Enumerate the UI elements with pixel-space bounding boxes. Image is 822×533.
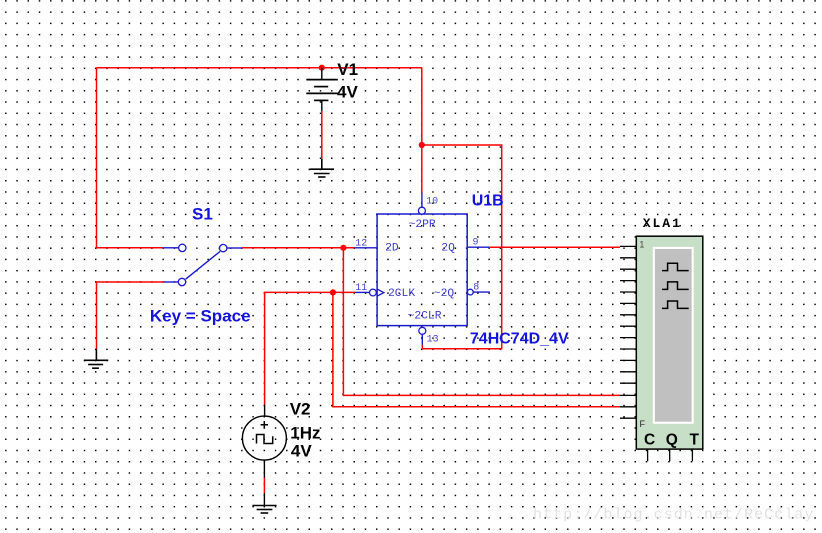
V2 plus sign: [261, 421, 268, 428]
V2 top stem: [264, 405, 266, 417]
svg-text:V2: V2: [290, 400, 311, 419]
XLA1 pulse glyph 3: [662, 301, 689, 308]
pin 10 bubble: [418, 207, 425, 214]
svg-text:XLA1: XLA1: [643, 216, 682, 231]
svg-text:http://blog.csdn.net/ReCclay: http://blog.csdn.net/ReCclay: [533, 507, 814, 524]
ground (below S1): [84, 349, 108, 368]
pin 13 bubble (~2CLR): [419, 327, 426, 334]
wire: top horizontal V1+ rail: [97, 67, 422, 69]
svg-text:4V: 4V: [337, 83, 358, 102]
svg-text:4V: 4V: [291, 442, 312, 461]
wire: S1 top contact to V1 rail: [97, 247, 163, 249]
svg-text:2CLK: 2CLK: [388, 288, 415, 300]
S1 contact bottom-left: [178, 278, 185, 285]
wire: V1+ rail left vertical to S1 top contact: [96, 68, 98, 248]
svg-text:12: 12: [355, 239, 367, 250]
wire: 2D branch down to logic analyzer pin 14: [343, 248, 620, 396]
op-amp U1B flip-flop body: [377, 214, 467, 326]
logic analyzer XLA1 body: [636, 236, 703, 449]
svg-text:1: 1: [639, 239, 644, 249]
svg-text:S1: S1: [192, 204, 213, 223]
S1 contact top-left: [179, 244, 186, 251]
svg-text:10: 10: [426, 197, 438, 208]
wire: V2 to U1B pin 11 (2CLK): [265, 292, 355, 404]
battery V1: [306, 68, 338, 111]
V2 square wave glyph: [257, 435, 273, 444]
svg-text:F: F: [640, 419, 646, 429]
svg-text:~2Q: ~2Q: [434, 288, 455, 300]
S1 contact common: [220, 244, 227, 251]
clock source V2: [242, 416, 286, 460]
svg-text:74HC74D_4V: 74HC74D_4V: [470, 330, 569, 347]
switch S1: [163, 248, 242, 282]
pin 11 bubble: [370, 289, 377, 296]
XLA1 pulse glyph 1: [662, 263, 689, 270]
wire: vertical drop to U1B pin 10: [421, 68, 423, 193]
svg-text:~2PR: ~2PR: [409, 219, 436, 231]
ground (below V2): [252, 506, 276, 514]
pin 13 stem: [421, 334, 423, 344]
svg-text:T: T: [690, 431, 700, 448]
svg-text:8: 8: [473, 282, 479, 293]
wire: branch to U1B pin 13 (preset/clear rail): [422, 145, 502, 349]
svg-text:~2CLR: ~2CLR: [408, 310, 442, 322]
wire: 2CLK branch down to logic analyzer pin 15: [333, 292, 620, 406]
pin 8 bubble (~2Q): [467, 289, 473, 295]
wire: S1 bottom contact to ground: [97, 282, 164, 349]
pin 10 stem: [421, 193, 423, 208]
svg-text:2D: 2D: [385, 242, 399, 254]
svg-text:V1: V1: [337, 60, 358, 79]
svg-text:13: 13: [427, 334, 439, 345]
clock wedge: [377, 289, 384, 296]
pin 9 stem (2Q): [467, 246, 489, 248]
svg-text:2Q: 2Q: [441, 243, 455, 255]
svg-text:Q: Q: [666, 431, 678, 448]
wire: V2 bottom red segment: [263, 478, 265, 494]
XLA1 bottom stems C Q T: [648, 449, 693, 461]
V2 bottom stem: [263, 460, 265, 478]
V2 lower stem to ground: [263, 493, 265, 505]
node: junction at battery positive: [319, 65, 325, 71]
svg-text:11: 11: [355, 283, 367, 294]
ground (below V1): [310, 159, 334, 177]
pin 12 stem (2D): [354, 247, 377, 249]
node: junction 2D branch: [340, 245, 346, 251]
XLA1 screen: [653, 247, 694, 424]
pin 11 stem (2CLK): [355, 291, 370, 293]
svg-text:U1B: U1B: [472, 193, 504, 210]
node: junction on pin10 drop: [419, 142, 425, 148]
svg-text:Key = Space: Key = Space: [150, 307, 251, 326]
wire: battery bottom red segment: [321, 111, 323, 159]
XLA1 pulse glyph 2: [662, 282, 689, 290]
wire: U1B pin 9 (2Q) to logic analyzer pin 1: [489, 246, 620, 248]
svg-text:C: C: [644, 431, 655, 448]
XLA1 input pins x16: [620, 246, 636, 418]
svg-text:1Hz: 1Hz: [290, 423, 320, 442]
wire: S1 common to U1B pin 12 (2D): [242, 247, 354, 249]
svg-text:9: 9: [473, 238, 479, 249]
pin 8 stem: [473, 291, 490, 293]
node: junction 2CLK branch: [330, 289, 336, 295]
